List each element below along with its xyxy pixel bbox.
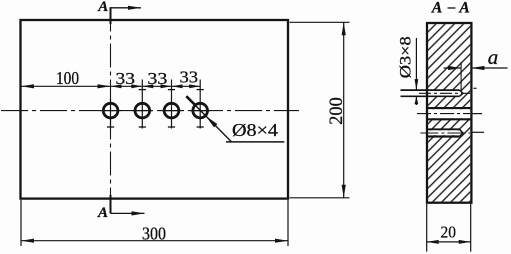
svg-text:Ø3×8: Ø3×8 xyxy=(398,36,415,78)
svg-text:A: A xyxy=(431,0,442,17)
big hole centerline xyxy=(417,113,470,115)
slot1 centerline xyxy=(419,92,470,94)
section arrow top xyxy=(111,7,142,9)
slot2 bottom line xyxy=(426,135,460,137)
svg-text:300: 300 xyxy=(142,224,166,244)
extension line bottom-left xyxy=(20,200,22,246)
leader line Ø8x4 xyxy=(187,97,231,142)
a dim line left part xyxy=(444,67,462,69)
cutting plane thick end bottom xyxy=(110,195,112,213)
a dim extension line xyxy=(460,62,462,90)
slot2 top line xyxy=(426,128,460,130)
slot1 cone tip xyxy=(460,90,464,96)
slot2 centerline right extension xyxy=(471,131,485,133)
big hole top line xyxy=(427,107,471,109)
section arrow bottom xyxy=(111,212,145,214)
extension line 20 right xyxy=(470,204,472,252)
Ø3x8 dim line vertical lower segment xyxy=(415,96,417,105)
dimension line 20 xyxy=(427,241,471,243)
white: upper small hole slot xyxy=(428,91,459,96)
svg-text:–: – xyxy=(447,0,456,16)
slot2 centerline xyxy=(420,132,470,134)
extension line bottom-right (for 200) xyxy=(290,197,350,199)
svg-text:33: 33 xyxy=(180,68,199,87)
dimension line 100 xyxy=(21,85,111,87)
svg-text:100: 100 xyxy=(56,68,79,88)
a dim line right part xyxy=(471,67,507,69)
hole 1 (Ø8) xyxy=(103,103,118,118)
centerline solid segments through holes xyxy=(101,99,211,129)
hole 4 xyxy=(193,103,208,118)
slot1 centerline right dot xyxy=(474,87,477,89)
svg-text:33: 33 xyxy=(147,69,167,88)
centerline tick marks xyxy=(107,90,204,127)
vertical centerline hole 3 xyxy=(171,80,173,129)
svg-text:A: A xyxy=(97,205,108,221)
slot1 bottom line + ext xyxy=(401,95,460,97)
dimension line 33 (1) xyxy=(111,85,143,87)
slot2 cone tip xyxy=(460,129,464,136)
dimension line 300 xyxy=(21,240,288,242)
section outline xyxy=(427,23,471,203)
svg-text:A: A xyxy=(97,0,108,15)
svg-text:Ø8×4: Ø8×4 xyxy=(232,120,278,140)
big hole centerline right extension xyxy=(471,113,483,115)
Ø3x8 dim line vertical upper segment xyxy=(415,38,417,90)
vertical centerline hole 4 xyxy=(199,80,201,129)
svg-text:200: 200 xyxy=(327,97,347,125)
cutting plane thick end top xyxy=(110,7,112,24)
cutting plane line A-A (vertical dash-dot at x=110.5) xyxy=(110,8,112,214)
svg-text:a: a xyxy=(488,45,499,69)
dimension line 33 (3) xyxy=(172,85,201,87)
section body with hatching xyxy=(428,24,470,202)
horizontal centerline through holes xyxy=(1,110,299,112)
extension line top-right (for 200) xyxy=(290,21,350,23)
slot1 top line + ext xyxy=(401,89,460,91)
svg-text:20: 20 xyxy=(441,223,457,242)
extension line 20 left xyxy=(426,204,428,252)
dimension line 200 xyxy=(343,22,345,198)
svg-text:33: 33 xyxy=(116,69,136,88)
big hole bottom line xyxy=(427,118,471,120)
arrow right of 100 xyxy=(98,84,111,88)
leader landing under text xyxy=(226,141,284,143)
leader arrowhead xyxy=(206,116,218,127)
plate outline 300x200 xyxy=(21,20,289,199)
white: lower small hole slot xyxy=(428,130,459,135)
leader line thick upper end xyxy=(186,96,195,105)
hole 3 xyxy=(164,103,179,118)
arrow left of 100 xyxy=(21,84,34,88)
hole 2 xyxy=(135,103,150,118)
svg-text:A: A xyxy=(458,0,469,17)
extension line bottom-right xyxy=(287,200,289,246)
dimension line 33 (2) xyxy=(142,85,171,87)
vertical centerline hole 2 xyxy=(141,80,143,129)
white: big hole band xyxy=(428,109,470,118)
